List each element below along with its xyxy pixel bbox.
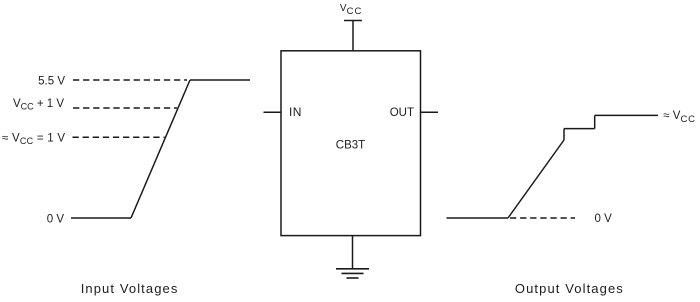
svg-text:Output Voltages: Output Voltages — [515, 281, 624, 296]
svg-text:0 V: 0 V — [47, 213, 65, 225]
svg-text:IN: IN — [289, 105, 302, 119]
output waveform top flat wire — [595, 114, 658, 116]
svg-text:≈ VCC: ≈ VCC — [663, 110, 696, 125]
svg-text:Input Voltages: Input Voltages — [81, 281, 179, 296]
VCC terminal bar — [344, 20, 362, 22]
svg-text:VCC + 1 V: VCC + 1 V — [13, 98, 64, 112]
output waveform step rise wire — [594, 115, 596, 128]
output waveform 0V flat wire — [447, 217, 509, 219]
svg-text:≈ VCC = 1 V: ≈ VCC = 1 V — [2, 133, 65, 147]
ground symbol — [336, 269, 369, 278]
output waveform rising edge wire — [508, 140, 564, 218]
output 0V dashed line — [510, 217, 575, 219]
svg-text:CB3T: CB3T — [336, 140, 365, 152]
ground wire — [352, 236, 354, 269]
input waveform 0V flat wire — [71, 217, 131, 219]
input waveform rising edge wire — [131, 80, 190, 218]
svg-text:5.5 V: 5.5 V — [38, 75, 65, 87]
CB3T box U1 — [281, 51, 421, 236]
input waveform top flat wire — [190, 79, 250, 81]
input VCC+1V dashed level line — [73, 107, 177, 109]
VCC supply wire — [352, 21, 354, 51]
output waveform mid step flat wire — [564, 128, 595, 130]
svg-text:OUT: OUT — [390, 107, 414, 119]
OUT pin stub wire — [421, 111, 439, 113]
IN pin stub wire — [264, 111, 282, 113]
svg-text:VCC: VCC — [340, 3, 363, 17]
input ~VCC-1V dashed level line — [73, 136, 165, 138]
input 5.5V dashed level line — [73, 79, 187, 81]
output waveform edge top vertical wire — [563, 129, 565, 140]
svg-text:0 V: 0 V — [595, 213, 613, 225]
